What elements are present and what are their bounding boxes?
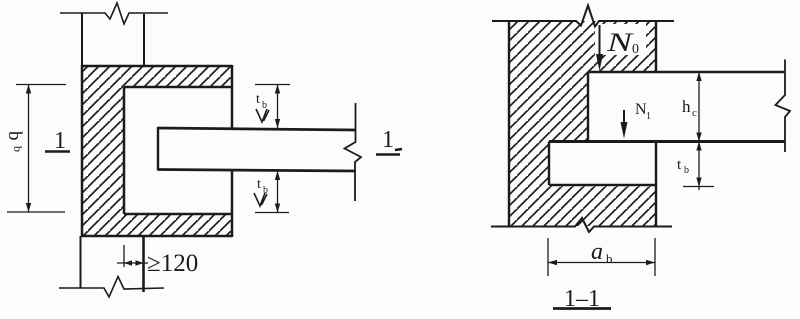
h_c top arrow [696, 72, 701, 81]
svg-text:1: 1 [54, 128, 66, 154]
wall hatched fill [509, 21, 656, 226]
svg-text:b: b [684, 165, 689, 176]
t_b top dimension line [277, 85, 279, 129]
N1 arrow [623, 110, 625, 125]
dimension b_b line [28, 85, 30, 213]
niche top edge [124, 86, 232, 89]
beam top edge [158, 128, 356, 130]
wall outer left edge [81, 65, 84, 237]
t_b top extension line [255, 84, 290, 86]
wall top edge with break [492, 6, 674, 27]
dimension &ge;120 left arrow [124, 260, 132, 266]
beam left end [587, 72, 589, 142]
beam break line [345, 103, 362, 201]
svg-text:h: h [682, 97, 691, 116]
svg-text:b: b [4, 131, 25, 141]
a_b dimension line [548, 262, 655, 264]
svg-text:t: t [677, 157, 682, 173]
upper wall left edge [81, 13, 83, 66]
svg-text:N: N [606, 28, 635, 57]
wall right edge above beam [655, 21, 657, 72]
t_b bottom down arrow [275, 204, 280, 213]
halo behind N0 label [595, 24, 646, 55]
beam break line [776, 60, 791, 153]
niche back edge [548, 142, 550, 186]
svg-text:t: t [256, 92, 260, 107]
wall outer bottom edge [82, 235, 232, 238]
a_b left arrow [548, 260, 557, 265]
top break line [60, 3, 168, 24]
beam left end [157, 127, 159, 171]
beam bottom edge / niche ledge [549, 140, 785, 143]
dimension &ge;120 right arrow [136, 260, 144, 266]
t_b down arrow [696, 178, 701, 187]
wall face upper segment [231, 65, 234, 128]
wall right edge below beam [655, 142, 657, 227]
section mark 1 right underline [376, 153, 400, 156]
bottom break line [59, 277, 164, 298]
wall bottom edge with break [491, 218, 672, 232]
t_b top gap symbol [256, 109, 269, 122]
t_b bottom dimension line [277, 171, 279, 213]
svg-text:b: b [11, 146, 25, 152]
section mark 1 left underline [45, 150, 70, 153]
dimension &ge;120 extension line [123, 245, 125, 267]
beam bottom edge [158, 170, 356, 172]
wall left edge [508, 21, 510, 227]
h_c bottom arrow [696, 133, 701, 142]
lower wall right edge [142, 236, 145, 292]
svg-text:c: c [692, 107, 697, 119]
svg-text:1: 1 [646, 111, 651, 122]
stray mark right of section mark [395, 149, 402, 150]
niche bottom edge [549, 184, 656, 186]
niche back edge [123, 87, 126, 214]
t_b dimension line right figure [698, 142, 700, 191]
a_b right extension line [654, 238, 656, 276]
h_c dimension line [698, 72, 700, 142]
t_b bottom gap symbol [254, 193, 267, 206]
svg-text:a: a [591, 239, 603, 265]
dimension b_b bottom arrow [26, 203, 31, 212]
t_b bottom up arrow [275, 171, 280, 180]
dimension &ge;120 line [117, 262, 148, 264]
N0 arrow [599, 25, 601, 56]
svg-text:b: b [606, 251, 613, 266]
upper wall right edge [143, 14, 145, 66]
wall face lower segment [231, 170, 234, 237]
t_b extension line [683, 186, 714, 188]
svg-text:t: t [257, 177, 261, 192]
a_b right arrow [646, 260, 655, 265]
dimension b_b rotated label [4, 131, 25, 152]
title underline [553, 307, 611, 310]
svg-text:≥120: ≥120 [147, 250, 198, 277]
niche bottom edge [124, 213, 232, 216]
dimension b_b bottom extension line [7, 211, 65, 213]
lower wall left edge [80, 236, 82, 288]
svg-text:0: 0 [632, 42, 639, 57]
t_b top down arrow [275, 119, 280, 128]
wall hatched C-shape fill [82, 66, 232, 236]
beam top edge [588, 71, 785, 74]
svg-text:1: 1 [382, 127, 394, 153]
t_b up arrow [696, 142, 701, 151]
t_b top up arrow [275, 85, 280, 94]
dimension b_b top extension line [16, 84, 66, 86]
wall outer top edge [82, 65, 232, 68]
t_b bottom extension line [255, 212, 289, 214]
a_b left extension line [547, 238, 549, 276]
dimension b_b top arrow [26, 85, 31, 94]
